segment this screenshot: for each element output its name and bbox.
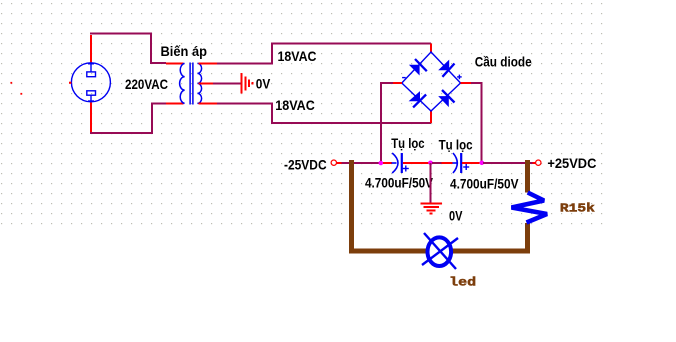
resistor R15k zigzag [512, 193, 548, 223]
wire rail cap1 right pin to ground node (red) [403, 162, 430, 164]
wire bridge minus down to rail (maroon) [381, 83, 393, 163]
wire bridge plus down to rail (maroon) [471, 83, 482, 163]
diode D4 bottom-right [438, 90, 454, 107]
svg-text:Biến áp: Biến áp [161, 43, 208, 59]
node junction dot 1 (bridge minus) [379, 161, 384, 166]
node junction dot 2 (ground) [428, 161, 433, 166]
diode D1 top-left [409, 59, 427, 76]
bridge plus sign [457, 75, 462, 80]
bridge bottom pin stub (red) [430, 111, 432, 123]
node -25VDC terminal (red circle) [331, 160, 336, 165]
svg-text:0V: 0V [256, 75, 271, 91]
wire center tap to ground (maroon) [213, 82, 242, 84]
svg-text:18VAC: 18VAC [278, 48, 317, 64]
wire secondary bottom to bridge bottom (maroon) [217, 104, 431, 124]
wire rail right segment (maroon) [483, 162, 532, 164]
svg-text:+25VDC: +25VDC [547, 155, 596, 171]
AC source plug symbol [69, 63, 110, 102]
thick wire left vertical (brown) [349, 160, 354, 254]
terminal pin stub left (red) [337, 162, 342, 164]
svg-text:4.700uF/50V: 4.700uF/50V [450, 175, 519, 191]
svg-text:220VAC: 220VAC [125, 76, 168, 92]
wire bottom-left from source to transformer (maroon) [90, 104, 166, 134]
bridge left pin stub (red) [393, 82, 402, 84]
capacitor C2 4.700uF/50V [452, 153, 469, 173]
diode D3 bottom-left [409, 91, 427, 107]
wire source top pin (red vertical) [90, 35, 92, 63]
svg-text:4.700uF/50V: 4.700uF/50V [365, 175, 434, 191]
stray red dot A [10, 82, 12, 84]
bridge right pin stub (red) [461, 82, 472, 84]
svg-text:Tụ lọc: Tụ lọc [391, 135, 425, 151]
wire ground drop (maroon) [430, 163, 432, 203]
thick wire right vertical upper (brown) [525, 160, 530, 192]
wire rail cap1 left pin (red) [381, 162, 392, 164]
svg-text:Tụ lọc: Tụ lọc [439, 137, 473, 153]
stray red dot B [20, 93, 22, 95]
LED crossed circle [422, 233, 458, 269]
capacitor C1 4.700uF/50V [392, 153, 409, 173]
transformer secondary coil [197, 63, 201, 103]
bridge minus sign [402, 77, 406, 79]
svg-text:Cầu diode: Cầu diode [475, 54, 532, 70]
svg-text:18VAC: 18VAC [275, 97, 315, 113]
wire secondary top to bridge top (maroon) [217, 44, 431, 64]
wire rail cap2 right pin (red) [462, 162, 479, 164]
wire source bottom pin (red vertical) [90, 103, 92, 134]
transformer primary pin stubs (red) [166, 63, 184, 103]
node +25VDC terminal (red circle) [536, 160, 541, 165]
wire top-left from source top pin bend to transformer (maroon) [90, 34, 166, 63]
ground 0V at transformer center tap (red, pointing right) [241, 73, 254, 93]
wire rail ground node to cap2 (maroon then red) [432, 162, 442, 164]
bridge rectifier diamond [402, 52, 461, 111]
thick wire bottom horizontal (brown) [349, 248, 530, 253]
wire rail left segment (maroon) [341, 162, 381, 164]
bridge top pin stub (red) [430, 44, 432, 53]
transformer core [190, 63, 193, 105]
svg-text:-25VDC: -25VDC [284, 157, 327, 173]
svg-text:0V: 0V [449, 207, 463, 223]
svg-text:led: led [449, 275, 476, 289]
diode D2 top-right [438, 60, 454, 77]
thick wire right vertical lower (brown) [525, 223, 530, 253]
node junction dot 3 (bridge plus) [480, 161, 485, 166]
ground 0V mid (red, pointing down) [420, 202, 442, 214]
terminal pin stub right (red) [532, 162, 535, 164]
transformer secondary pin stubs (red) [199, 63, 218, 103]
svg-text:R15k: R15k [560, 202, 595, 216]
transformer primary coil [180, 63, 185, 103]
